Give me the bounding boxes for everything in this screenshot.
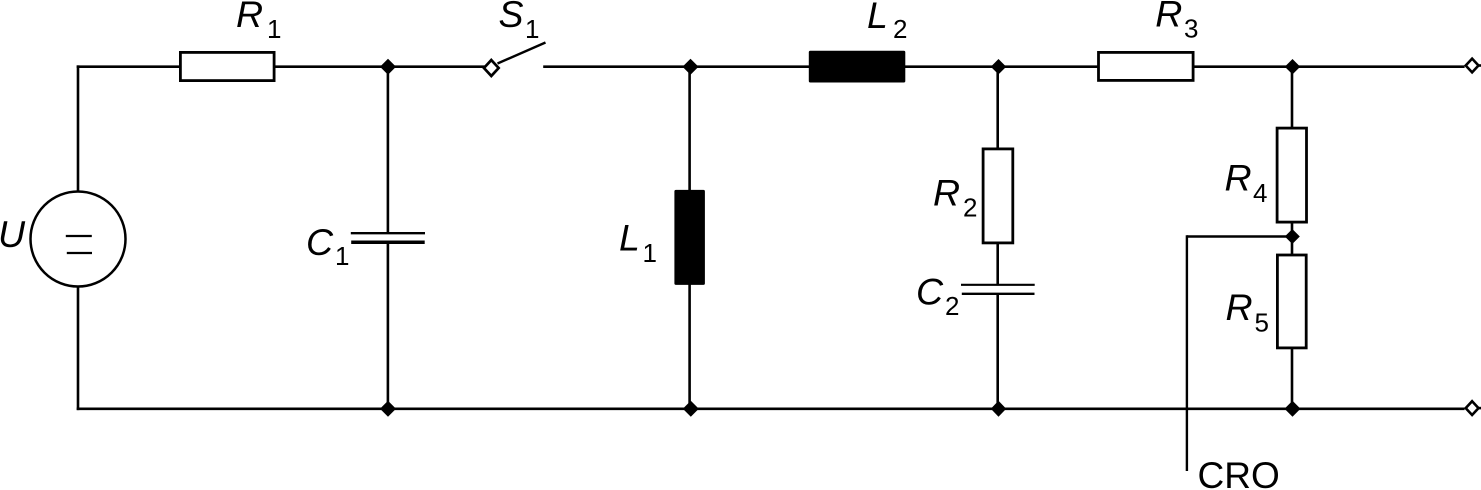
svg-text:R: R bbox=[1226, 286, 1253, 328]
wire CRO vertical bbox=[1186, 235, 1188, 471]
inductor L1 bbox=[674, 67, 705, 410]
junction bottom of R4/R5 branch bbox=[1285, 401, 1301, 417]
junction bottom of R2/C2 branch bbox=[991, 401, 1006, 417]
wire left vertical bottom (source to bottom rail) bbox=[77, 287, 80, 411]
wire R2 to C2 bbox=[996, 244, 999, 286]
svg-text:L: L bbox=[619, 217, 640, 259]
svg-text:C: C bbox=[916, 271, 944, 313]
switch S1 bbox=[484, 43, 546, 76]
wire top rail: S1 to L2 bbox=[543, 65, 809, 68]
wire CRO tap horizontal bbox=[1187, 235, 1290, 237]
wire left vertical top (source to top rail) bbox=[77, 65, 80, 191]
resistor R1 bbox=[180, 52, 274, 80]
svg-text:C: C bbox=[306, 221, 334, 263]
junction top of C1 branch bbox=[380, 59, 396, 75]
resistor R4 bbox=[1277, 67, 1306, 222]
wire top rail: left vertical to R1 bbox=[77, 65, 180, 68]
svg-text:U: U bbox=[0, 213, 26, 255]
svg-text:CRO: CRO bbox=[1198, 455, 1280, 490]
svg-text:1: 1 bbox=[643, 238, 657, 268]
resistor R3 bbox=[1099, 52, 1194, 80]
svg-text:S: S bbox=[499, 0, 524, 35]
wire top rail: R3 to output terminal bbox=[1193, 65, 1465, 68]
resistor R2 bbox=[983, 67, 1013, 243]
svg-text:1: 1 bbox=[335, 241, 349, 271]
wire top rail: L2 to R3 bbox=[905, 65, 1098, 68]
wire top rail: R1 to switch S1 bbox=[275, 65, 485, 68]
junction top of L1 branch bbox=[683, 59, 699, 75]
voltage source U bbox=[31, 192, 126, 287]
svg-text:5: 5 bbox=[1255, 308, 1269, 338]
svg-text:R: R bbox=[236, 0, 263, 35]
svg-text:R: R bbox=[933, 172, 960, 214]
output terminal bottom bbox=[1466, 401, 1481, 415]
svg-text:2: 2 bbox=[945, 291, 959, 321]
wire R4 to R5 bbox=[1291, 223, 1294, 256]
junction top of R4 branch bbox=[1285, 59, 1300, 74]
svg-text:1: 1 bbox=[267, 14, 281, 44]
inductor L2 bbox=[809, 51, 906, 83]
output terminal top bbox=[1466, 59, 1481, 73]
capacitor C1 bbox=[351, 67, 425, 410]
svg-text:R: R bbox=[1225, 157, 1252, 199]
resistor R5 bbox=[1277, 255, 1306, 409]
junction bottom of L1 branch bbox=[683, 401, 699, 417]
junction top of R2 branch bbox=[991, 59, 1006, 74]
svg-text:2: 2 bbox=[963, 193, 977, 223]
svg-text:4: 4 bbox=[1253, 178, 1267, 208]
junction bottom of C1 branch bbox=[380, 401, 396, 417]
svg-text:3: 3 bbox=[1184, 14, 1198, 44]
capacitor C2 bbox=[961, 285, 1035, 409]
svg-text:2: 2 bbox=[893, 14, 907, 44]
svg-text:1: 1 bbox=[525, 14, 539, 44]
wire bottom rail bbox=[77, 407, 1465, 410]
junction node between R4 and R5 (CRO tap) bbox=[1285, 229, 1300, 244]
svg-text:R: R bbox=[1155, 0, 1182, 35]
svg-text:L: L bbox=[867, 0, 888, 36]
